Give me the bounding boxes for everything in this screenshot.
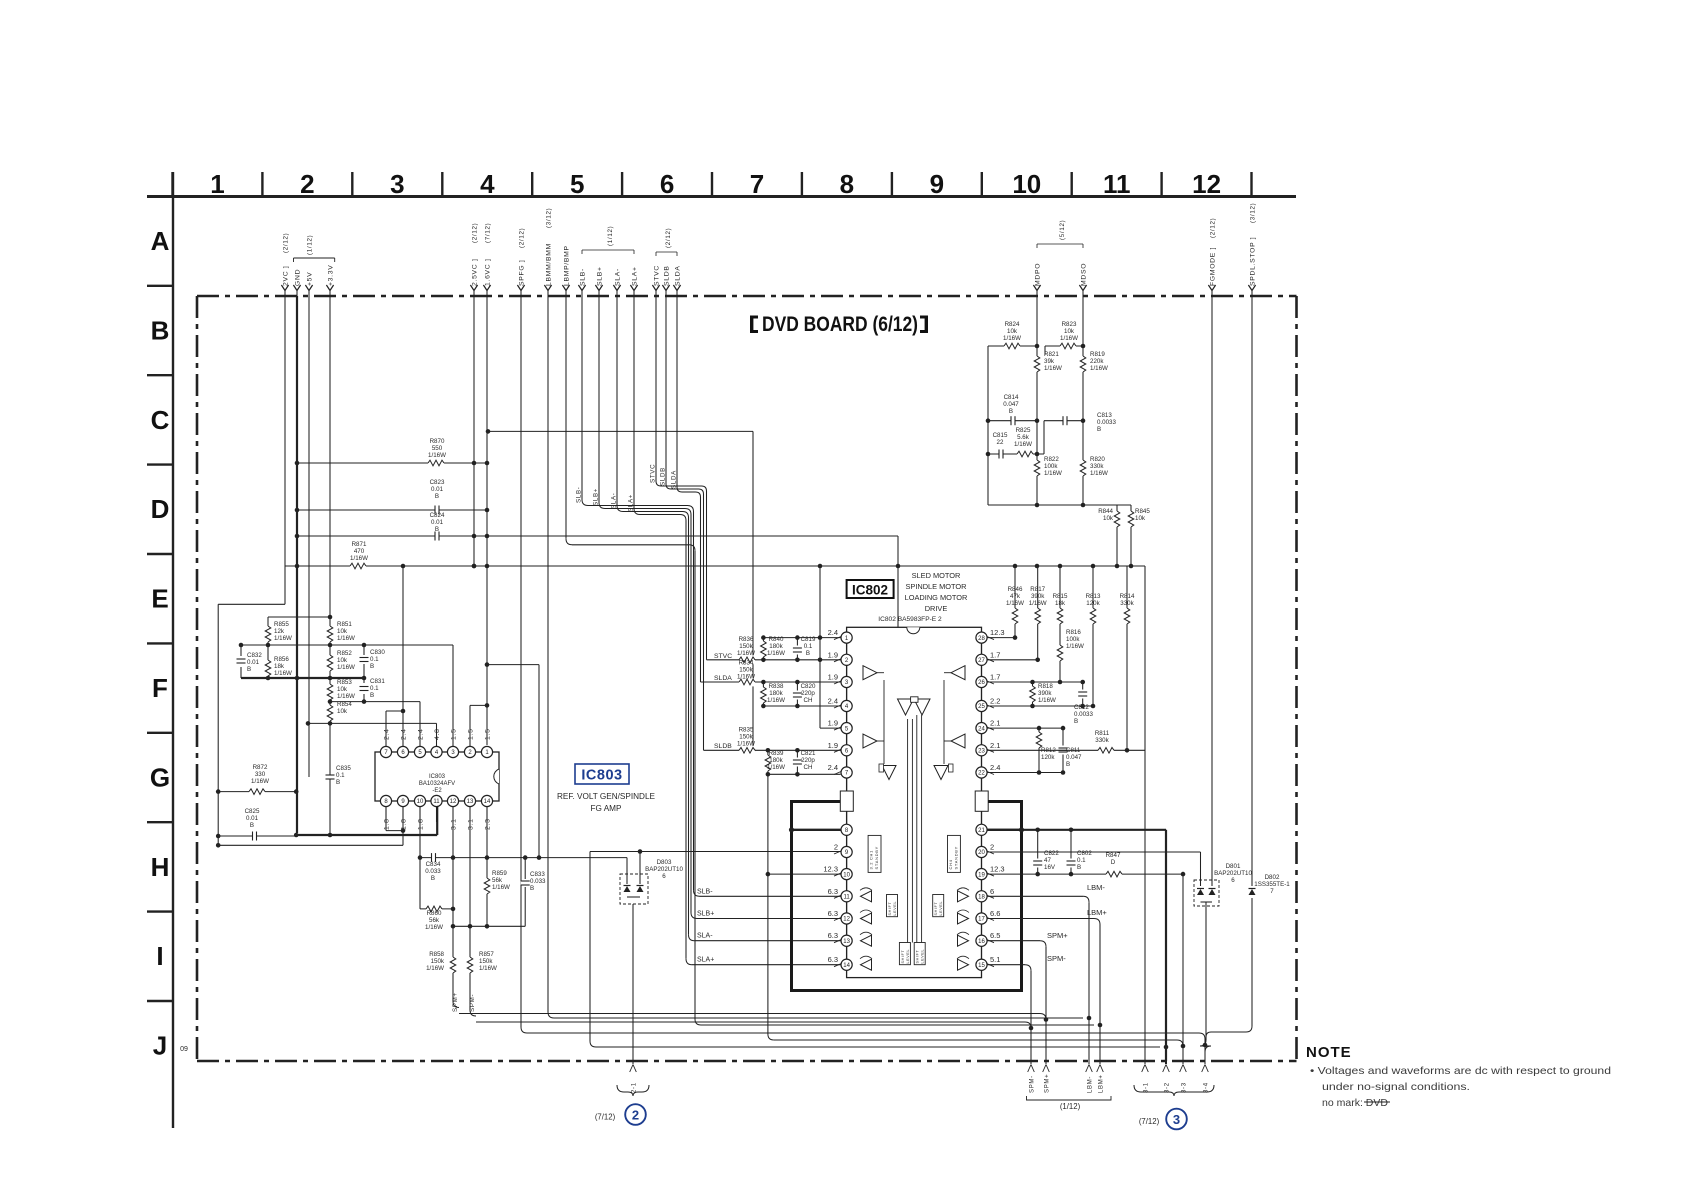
svg-text:LEVEL: LEVEL [921, 949, 925, 964]
svg-text:F: F [152, 673, 168, 703]
svg-text:0.047: 0.047 [1066, 754, 1082, 761]
svg-text:1.5: 1.5 [468, 728, 475, 740]
svg-text:2.5VC ]: 2.5VC ] [471, 258, 478, 286]
svg-text:18: 18 [978, 895, 985, 901]
svg-text:9: 9 [930, 169, 944, 199]
svg-text:C834: C834 [426, 861, 441, 868]
svg-text:180k: 180k [769, 757, 783, 764]
svg-text:4.8: 4.8 [434, 728, 441, 740]
svg-text:1/16W: 1/16W [251, 778, 269, 785]
svg-text:• Voltages and waveforms are d: • Voltages and waveforms are dc with res… [1310, 1065, 1611, 1077]
svg-text:16V: 16V [1044, 864, 1056, 871]
svg-text:2.4: 2.4 [990, 763, 1000, 772]
svg-text:17: 17 [978, 917, 985, 923]
svg-text:(7/12): (7/12) [595, 1113, 616, 1122]
svg-text:R811: R811 [1095, 730, 1110, 737]
svg-text:1/16W: 1/16W [737, 674, 755, 681]
svg-text:+3.3V: +3.3V [327, 265, 334, 286]
svg-text:0.1: 0.1 [370, 685, 379, 692]
svg-text:10k: 10k [1135, 515, 1146, 522]
svg-text:R825: R825 [1016, 427, 1031, 434]
svg-text:1.6VC ]: 1.6VC ] [484, 258, 491, 286]
svg-text:C832: C832 [247, 652, 262, 659]
svg-text:LBM-: LBM- [1087, 883, 1105, 892]
svg-text:R858: R858 [429, 951, 444, 958]
svg-text:C814: C814 [1004, 394, 1019, 401]
svg-text:SLB-: SLB- [579, 268, 586, 286]
svg-text:1.5: 1.5 [485, 728, 492, 740]
svg-text:SHIFT: SHIFT [934, 902, 938, 916]
svg-text:CH4: CH4 [948, 859, 953, 869]
svg-text:180k: 180k [769, 690, 783, 697]
svg-text:(1/12): (1/12) [607, 226, 614, 246]
svg-text:1/16W: 1/16W [1044, 365, 1062, 372]
svg-text:B: B [336, 779, 340, 786]
svg-text:R815: R815 [1053, 593, 1068, 600]
svg-text:1.9: 1.9 [828, 741, 838, 750]
svg-text:390k: 390k [1038, 690, 1052, 697]
svg-text:6: 6 [660, 169, 674, 199]
svg-text:390k: 390k [1031, 593, 1045, 600]
svg-text:330k: 330k [1095, 737, 1109, 744]
svg-text:R820: R820 [1090, 456, 1105, 463]
svg-text:0.033: 0.033 [425, 868, 441, 875]
svg-text:SPDL.STOP ]: SPDL.STOP ] [1249, 237, 1256, 286]
svg-text:8: 8 [840, 169, 854, 199]
svg-text:1/16W: 1/16W [479, 965, 497, 972]
svg-text:1/16W: 1/16W [337, 635, 355, 642]
svg-text:1/16W: 1/16W [1029, 600, 1047, 607]
svg-text:220p: 220p [801, 690, 815, 697]
svg-text:R839: R839 [769, 750, 784, 757]
svg-text:R851: R851 [337, 621, 352, 628]
svg-text:1/16W: 1/16W [1038, 697, 1056, 704]
svg-text:R836: R836 [739, 636, 754, 643]
svg-text:SLB+: SLB+ [697, 911, 714, 918]
svg-text:REF. VOLT GEN/SPINDLE: REF. VOLT GEN/SPINDLE [557, 792, 656, 801]
svg-text:1/16W: 1/16W [274, 635, 292, 642]
svg-text:3.1: 3.1 [468, 818, 475, 830]
svg-text:1: 1 [210, 169, 224, 199]
svg-text:R871: R871 [352, 541, 367, 548]
svg-text:1.8: 1.8 [384, 818, 391, 830]
svg-text:0.01: 0.01 [247, 659, 260, 666]
svg-text:DVD BOARD (6/12): DVD BOARD (6/12) [762, 313, 918, 336]
svg-text:0.01: 0.01 [431, 486, 444, 493]
svg-text:C822: C822 [1044, 850, 1059, 857]
svg-text:R853: R853 [337, 679, 352, 686]
svg-text:3: 3 [1173, 1112, 1180, 1127]
svg-text:12: 12 [450, 799, 457, 805]
svg-text:10k: 10k [1103, 515, 1114, 522]
svg-text:10k: 10k [337, 708, 348, 715]
svg-text:D802: D802 [1265, 874, 1280, 881]
svg-text:11: 11 [1103, 169, 1131, 199]
svg-text:SLB+: SLB+ [593, 488, 600, 506]
svg-text:CH: CH [804, 764, 813, 771]
svg-text:LOADING MOTOR: LOADING MOTOR [905, 593, 968, 602]
svg-text:2.3: 2.3 [485, 818, 492, 830]
svg-text:B: B [806, 650, 810, 657]
svg-text:-E2: -E2 [432, 788, 442, 794]
svg-text:3-1: 3-1 [1144, 1082, 1150, 1093]
svg-text:R844: R844 [1098, 508, 1113, 515]
svg-text:2.1: 2.1 [990, 741, 1000, 750]
svg-text:19: 19 [978, 872, 985, 878]
svg-text:(2/12): (2/12) [471, 223, 478, 243]
svg-text:5.1: 5.1 [990, 955, 1000, 964]
svg-text:6.5: 6.5 [990, 931, 1000, 940]
svg-text:12.3: 12.3 [990, 628, 1005, 637]
svg-text:550: 550 [432, 445, 443, 452]
svg-text:330k: 330k [1120, 600, 1134, 607]
svg-text:180k: 180k [769, 643, 783, 650]
svg-text:C802: C802 [1077, 850, 1092, 857]
svg-text:1/16W: 1/16W [1090, 365, 1108, 372]
svg-text:2VC ]: 2VC ] [282, 266, 289, 287]
svg-text:B: B [151, 315, 170, 345]
svg-text:(2/12): (2/12) [282, 233, 289, 253]
svg-text:1/16W: 1/16W [767, 764, 785, 771]
svg-text:1.7: 1.7 [990, 673, 1000, 682]
svg-text:FG AMP: FG AMP [591, 804, 622, 813]
svg-text:SPM+: SPM+ [1047, 931, 1068, 940]
svg-text:LBMM/BMM: LBMM/BMM [545, 243, 552, 286]
svg-text:B: B [530, 885, 534, 892]
svg-text:(2/12): (2/12) [1209, 218, 1216, 238]
svg-text:7: 7 [1270, 888, 1274, 895]
svg-text:3.1: 3.1 [451, 818, 458, 830]
svg-text:16: 16 [978, 939, 985, 945]
svg-text:STVC: STVC [714, 653, 732, 660]
svg-text:10k: 10k [1064, 328, 1075, 335]
svg-text:1/16W: 1/16W [767, 697, 785, 704]
svg-text:LEVEL: LEVEL [939, 901, 943, 916]
svg-text:10: 10 [843, 872, 850, 878]
svg-text:SPINDLE MOTOR: SPINDLE MOTOR [905, 582, 966, 591]
svg-text:5.6k: 5.6k [1017, 434, 1030, 441]
svg-text:B: B [1066, 761, 1070, 768]
svg-text:SPFG ]: SPFG ] [518, 260, 525, 286]
svg-text:28: 28 [978, 636, 985, 642]
svg-text:B: B [431, 875, 435, 882]
svg-text:1/16W: 1/16W [737, 650, 755, 657]
svg-text:12k: 12k [274, 628, 285, 635]
svg-text:I: I [156, 941, 163, 971]
svg-text:R856: R856 [274, 656, 289, 663]
svg-text:10k: 10k [1007, 328, 1018, 335]
svg-text:20: 20 [978, 850, 985, 856]
svg-text:C833: C833 [530, 871, 545, 878]
svg-text:SLA+: SLA+ [628, 494, 635, 512]
svg-text:1/16W: 1/16W [337, 664, 355, 671]
svg-text:4: 4 [480, 169, 495, 199]
svg-text:09: 09 [180, 1046, 188, 1053]
svg-text:(2/12): (2/12) [518, 228, 525, 248]
svg-text:R846: R846 [1008, 586, 1023, 593]
svg-text:R838: R838 [769, 683, 784, 690]
svg-text:1.5: 1.5 [451, 728, 458, 740]
svg-text:C835: C835 [336, 765, 351, 772]
svg-text:B: B [1077, 864, 1081, 871]
svg-text:15: 15 [978, 963, 985, 969]
svg-text:R857: R857 [479, 951, 494, 958]
svg-text:3.2 CH1: 3.2 CH1 [869, 850, 874, 870]
svg-text:SLDA: SLDA [674, 265, 681, 286]
svg-text:R816: R816 [1066, 629, 1081, 636]
svg-text:IC802: IC802 [852, 583, 888, 598]
svg-text:18k: 18k [1055, 600, 1066, 607]
svg-text:+5V: +5V [306, 272, 313, 286]
svg-text:10: 10 [1012, 169, 1041, 199]
svg-text:1/16W: 1/16W [1003, 335, 1021, 342]
svg-text:10k: 10k [337, 657, 348, 664]
svg-text:150k: 150k [739, 667, 753, 674]
svg-text:11: 11 [843, 895, 850, 901]
svg-text:2.4: 2.4 [828, 763, 838, 772]
svg-text:1/16W: 1/16W [1044, 470, 1062, 477]
svg-text:R824: R824 [1005, 321, 1020, 328]
svg-text:14: 14 [484, 799, 491, 805]
svg-text:LBM+: LBM+ [1099, 1074, 1105, 1093]
svg-text:SLA-: SLA- [697, 933, 713, 940]
svg-text:R819: R819 [1090, 351, 1105, 358]
svg-text:1.8: 1.8 [401, 818, 408, 830]
svg-text:0.1: 0.1 [336, 772, 345, 779]
svg-text:1/16W: 1/16W [1006, 600, 1024, 607]
svg-text:3-3: 3-3 [1182, 1082, 1188, 1093]
svg-text:R859: R859 [492, 870, 507, 877]
svg-text:SLA+: SLA+ [631, 266, 638, 286]
svg-text:2.4: 2.4 [418, 728, 425, 740]
svg-text:0.0033: 0.0033 [1074, 711, 1093, 718]
svg-text:47k: 47k [1010, 593, 1021, 600]
svg-text:R860: R860 [427, 910, 442, 917]
svg-text:0.1: 0.1 [804, 643, 813, 650]
svg-text:R852: R852 [337, 650, 352, 657]
svg-text:R840: R840 [769, 636, 784, 643]
svg-text:3: 3 [390, 169, 404, 199]
svg-text:1/16W: 1/16W [1014, 441, 1032, 448]
svg-text:10k: 10k [337, 686, 348, 693]
svg-text:2-1: 2-1 [632, 1082, 638, 1093]
svg-text:SLED MOTOR: SLED MOTOR [912, 571, 961, 580]
svg-text:B: B [250, 822, 254, 829]
svg-text:120k: 120k [1086, 600, 1100, 607]
svg-text:LBMP/BMP: LBMP/BMP [563, 245, 570, 286]
svg-text:100k: 100k [1044, 463, 1058, 470]
svg-text:J: J [153, 1031, 167, 1061]
svg-text:SLB-: SLB- [697, 888, 713, 895]
svg-text:220k: 220k [1090, 358, 1104, 365]
svg-text:C819: C819 [801, 636, 816, 643]
svg-text:FGMODE ]: FGMODE ] [1209, 247, 1216, 286]
svg-text:B: B [435, 526, 439, 533]
svg-text:21: 21 [978, 828, 985, 834]
svg-text:SLA-: SLA- [614, 268, 621, 286]
svg-text:0.0033: 0.0033 [1097, 419, 1116, 426]
svg-text:1/16W: 1/16W [1090, 470, 1108, 477]
svg-text:12.3: 12.3 [990, 865, 1005, 874]
svg-text:D: D [1111, 859, 1116, 866]
svg-text:56k: 56k [492, 877, 503, 884]
svg-text:STANDBY: STANDBY [874, 846, 879, 870]
svg-text:SLB+: SLB+ [596, 266, 603, 286]
svg-text:B: B [1097, 426, 1101, 433]
svg-text:2.4: 2.4 [828, 697, 838, 706]
svg-text:DRIVE: DRIVE [925, 604, 948, 613]
svg-text:0.1: 0.1 [1077, 857, 1086, 864]
svg-text:(7/12): (7/12) [1139, 1117, 1160, 1126]
svg-text:SLDA: SLDA [714, 675, 732, 682]
svg-text:6.3: 6.3 [828, 931, 838, 940]
svg-text:SHIFT: SHIFT [888, 902, 892, 916]
svg-text:B: B [370, 692, 374, 699]
svg-text:R813: R813 [1086, 593, 1101, 600]
svg-text:2: 2 [834, 843, 838, 852]
svg-text:E: E [151, 584, 168, 614]
svg-text:(5/12): (5/12) [1059, 220, 1066, 240]
svg-text:IC802 BA5983FP-E 2: IC802 BA5983FP-E 2 [878, 616, 942, 623]
svg-text:1.9: 1.9 [828, 719, 838, 728]
svg-text:1/16W: 1/16W [1066, 643, 1084, 650]
svg-text:10: 10 [417, 799, 424, 805]
svg-text:(1/12): (1/12) [1060, 1102, 1081, 1111]
svg-text:150k: 150k [739, 643, 753, 650]
svg-text:1/16W: 1/16W [492, 884, 510, 891]
svg-text:D: D [151, 494, 170, 524]
svg-text:1/16W: 1/16W [767, 650, 785, 657]
svg-text:R855: R855 [274, 621, 289, 628]
svg-text:1/16W: 1/16W [428, 452, 446, 459]
svg-text:6: 6 [662, 873, 666, 880]
svg-text:LBM+: LBM+ [1087, 908, 1107, 917]
svg-text:(3/12): (3/12) [545, 208, 552, 228]
svg-text:150k: 150k [739, 734, 753, 741]
svg-text:LEVEL: LEVEL [906, 949, 910, 964]
svg-text:2.2: 2.2 [990, 697, 1000, 706]
svg-text:6.6: 6.6 [990, 909, 1000, 918]
svg-text:R834: R834 [739, 660, 754, 667]
svg-text:BAP202UT10: BAP202UT10 [1214, 870, 1252, 877]
svg-text:0.033: 0.033 [530, 878, 546, 885]
svg-text:6.3: 6.3 [828, 887, 838, 896]
svg-text:0.1: 0.1 [370, 656, 379, 663]
svg-text:NOTE: NOTE [1306, 1044, 1352, 1061]
svg-text:C815: C815 [993, 432, 1008, 439]
svg-text:STVC: STVC [653, 265, 660, 286]
svg-text:3-2: 3-2 [1165, 1082, 1171, 1093]
svg-text:SLA+: SLA+ [697, 957, 714, 964]
svg-text:12.3: 12.3 [823, 865, 838, 874]
svg-text:under no-signal conditions.: under no-signal conditions. [1322, 1081, 1470, 1093]
svg-text:330: 330 [255, 771, 266, 778]
svg-text:1/16W: 1/16W [1060, 335, 1078, 342]
svg-text:D801: D801 [1226, 863, 1241, 870]
svg-text:SPM-: SPM- [1047, 954, 1066, 963]
svg-text:11: 11 [433, 799, 440, 805]
svg-text:GND: GND [294, 269, 301, 286]
svg-text:STANDBY: STANDBY [954, 846, 959, 870]
svg-text:12: 12 [1192, 169, 1221, 199]
svg-text:120k: 120k [1041, 754, 1055, 761]
svg-text:2: 2 [990, 843, 994, 852]
svg-text:470: 470 [354, 548, 365, 555]
svg-text:1.9: 1.9 [828, 673, 838, 682]
svg-text:C831: C831 [370, 678, 385, 685]
svg-text:1/16W: 1/16W [350, 555, 368, 562]
svg-text:0.047: 0.047 [1003, 401, 1019, 408]
svg-text:R845: R845 [1135, 508, 1150, 515]
svg-text:R821: R821 [1044, 351, 1059, 358]
svg-text:2.4: 2.4 [828, 628, 838, 637]
svg-text:R835: R835 [739, 727, 754, 734]
svg-text:5: 5 [570, 169, 584, 199]
svg-text:150k: 150k [431, 958, 445, 965]
svg-text:1/16W: 1/16W [274, 670, 292, 677]
svg-text:23: 23 [978, 749, 985, 755]
svg-text:SHIFT: SHIFT [901, 950, 905, 964]
svg-text:(7/12): (7/12) [484, 223, 491, 243]
svg-text:C820: C820 [801, 683, 816, 690]
svg-text:SHIFT: SHIFT [916, 950, 920, 964]
svg-text:1.8: 1.8 [418, 818, 425, 830]
svg-text:7: 7 [750, 169, 764, 199]
svg-text:R817: R817 [1030, 586, 1045, 593]
svg-text:330k: 330k [1090, 463, 1104, 470]
svg-text:150k: 150k [479, 958, 493, 965]
svg-text:R814: R814 [1120, 593, 1135, 600]
svg-text:SLDB: SLDB [660, 467, 667, 486]
svg-text:C825: C825 [245, 808, 260, 815]
svg-text:13: 13 [843, 939, 850, 945]
svg-text:STVC: STVC [650, 464, 657, 483]
svg-text:SLDB: SLDB [714, 743, 732, 750]
svg-text:B: B [1074, 718, 1078, 725]
svg-text:C830: C830 [370, 649, 385, 656]
svg-text:no mark: DVD: no mark: DVD [1322, 1097, 1388, 1109]
svg-text:R822: R822 [1044, 456, 1059, 463]
svg-text:13: 13 [467, 799, 474, 805]
svg-text:22: 22 [978, 771, 985, 777]
svg-text:SPM-: SPM- [1030, 1075, 1036, 1093]
svg-text:6.3: 6.3 [828, 909, 838, 918]
svg-text:10k: 10k [337, 628, 348, 635]
svg-text:C812: C812 [1074, 704, 1089, 711]
svg-text:C821: C821 [801, 750, 816, 757]
svg-text:1/16W: 1/16W [337, 693, 355, 700]
svg-text:14: 14 [843, 963, 850, 969]
svg-text:2.4: 2.4 [401, 728, 408, 740]
svg-text:2.1: 2.1 [990, 719, 1000, 728]
svg-text:B: B [435, 493, 439, 500]
svg-text:H: H [151, 852, 170, 882]
svg-text:6.3: 6.3 [828, 955, 838, 964]
svg-text:56k: 56k [429, 917, 440, 924]
svg-text:SLDB: SLDB [663, 265, 670, 286]
svg-text:18k: 18k [274, 663, 285, 670]
svg-text:1.7: 1.7 [990, 650, 1000, 659]
svg-text:27: 27 [978, 658, 985, 664]
svg-text:B: B [370, 663, 374, 670]
svg-text:(3/12): (3/12) [1249, 203, 1256, 223]
svg-text:2: 2 [300, 169, 314, 199]
svg-text:(2/12): (2/12) [665, 228, 672, 248]
svg-text:R872: R872 [253, 764, 268, 771]
svg-text:C823: C823 [430, 479, 445, 486]
svg-text:BAP202UT10: BAP202UT10 [645, 866, 683, 873]
svg-text:CH: CH [804, 697, 813, 704]
